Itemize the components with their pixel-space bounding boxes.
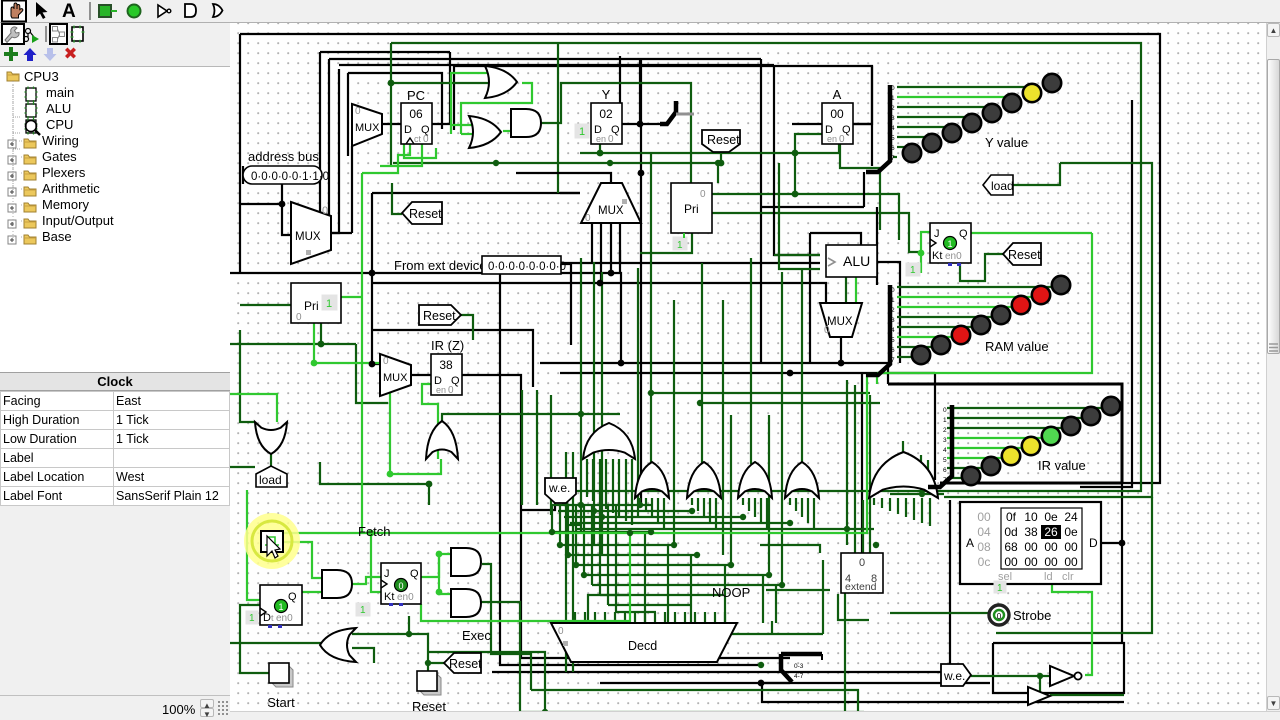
wire	[897, 106, 993, 108]
wire	[807, 498, 809, 523]
svg-text:From ext device: From ext device	[394, 258, 486, 273]
wire	[372, 283, 826, 303]
svg-text:0-3: 0-3	[794, 663, 804, 670]
wire	[610, 223, 612, 273]
splitter S3 IR	[928, 405, 952, 487]
wire	[361, 173, 363, 533]
wire	[421, 554, 451, 577]
not gate G16	[1050, 666, 1074, 686]
wire	[845, 276, 847, 303]
LED RAM0	[912, 346, 930, 364]
wire	[586, 459, 588, 497]
wire	[1101, 542, 1122, 544]
wire	[567, 505, 569, 555]
wire	[239, 34, 241, 204]
wire	[352, 577, 381, 584]
node	[581, 572, 587, 578]
svg-text:MUX: MUX	[827, 316, 853, 328]
wire	[650, 153, 652, 464]
wire	[352, 648, 374, 663]
svg-text:02: 02	[599, 107, 613, 121]
buffer G17	[1028, 687, 1050, 705]
node	[311, 360, 318, 367]
node	[573, 562, 579, 568]
svg-text:Memory: Memory	[42, 197, 89, 212]
wire	[881, 498, 883, 508]
LED IR7	[1102, 397, 1120, 415]
wire	[382, 123, 401, 125]
svg-text:ALU: ALU	[843, 253, 870, 269]
node	[787, 520, 793, 526]
wire	[356, 344, 388, 403]
svg-text:Strobe: Strobe	[1013, 608, 1051, 623]
wire	[711, 213, 921, 252]
wire	[889, 498, 891, 511]
wire	[240, 605, 271, 673]
wire	[921, 232, 930, 273]
wire	[771, 621, 773, 634]
node	[779, 582, 785, 588]
wire	[722, 300, 724, 555]
wire	[897, 86, 1033, 88]
svg-text:0: 0	[355, 106, 361, 117]
wire	[616, 611, 656, 613]
wire	[775, 585, 777, 623]
wire	[599, 459, 601, 505]
wire	[592, 584, 782, 586]
wire	[230, 343, 321, 345]
svg-text:0·0·0·0·0·0·0·0: 0·0·0·0·0·0·0·0	[488, 261, 566, 273]
wire	[625, 459, 627, 521]
svg-text:D: D	[404, 124, 412, 136]
wire	[902, 441, 904, 455]
splitter S2 RAM	[866, 285, 890, 375]
wire	[897, 96, 1013, 98]
wire	[390, 83, 392, 166]
wire	[645, 498, 647, 511]
wire	[536, 390, 538, 505]
wire	[520, 711, 864, 713]
wire	[840, 337, 842, 363]
svg-text:MUX: MUX	[355, 122, 380, 134]
svg-text:Wiring: Wiring	[42, 133, 79, 148]
node	[637, 502, 643, 508]
node	[425, 660, 431, 666]
wire	[947, 457, 1002, 459]
mux M5	[820, 303, 862, 337]
svg-text:w.e.: w.e.	[943, 669, 965, 683]
wire	[1028, 676, 1040, 695]
wire	[867, 373, 877, 375]
node	[565, 552, 571, 558]
wire	[421, 533, 630, 621]
wire	[516, 173, 611, 183]
wire	[591, 505, 593, 585]
LED IR0	[962, 467, 980, 485]
wire	[876, 207, 878, 285]
and gate G12	[322, 570, 352, 598]
wire	[893, 156, 897, 158]
wire	[584, 574, 769, 576]
node	[873, 542, 879, 548]
wire	[618, 459, 620, 517]
svg-text:en0: en0	[945, 251, 962, 262]
RAM M1	[960, 502, 1101, 584]
node	[387, 471, 394, 478]
svg-text:Fetch: Fetch	[358, 524, 391, 539]
svg-text:0·0·0·0·0·1·1·0: 0·0·0·0·0·1·1·0	[251, 171, 329, 183]
wire	[631, 459, 633, 525]
node	[578, 502, 584, 508]
wire	[291, 69, 339, 233]
wire	[944, 163, 1152, 497]
input pin Reset R5	[444, 653, 481, 673]
wire	[766, 589, 830, 591]
svg-text:clr: clr	[1062, 571, 1074, 583]
svg-text:1: 1	[677, 240, 683, 251]
wire	[362, 144, 410, 173]
node	[638, 170, 645, 177]
svg-text:00: 00	[1024, 540, 1038, 554]
wire	[863, 172, 865, 207]
wire	[869, 395, 871, 575]
wire	[439, 554, 451, 594]
svg-text:1: 1	[579, 126, 585, 138]
wire	[615, 505, 617, 612]
input pin Reset R4	[1003, 243, 1041, 265]
node	[608, 270, 615, 277]
node	[697, 400, 703, 406]
wire	[619, 56, 621, 103]
wire	[781, 652, 822, 657]
svg-text:Reset: Reset	[412, 699, 446, 711]
wire	[432, 52, 450, 124]
LED RAM3	[972, 316, 990, 334]
wire	[560, 544, 674, 546]
svg-text:3: 3	[943, 437, 947, 444]
wire	[674, 612, 676, 623]
wire	[822, 560, 824, 634]
wire	[697, 498, 699, 511]
wire	[846, 380, 848, 545]
wire	[451, 73, 490, 134]
splitter S4 leg	[781, 654, 792, 682]
wire	[720, 152, 722, 163]
svg-text:main: main	[46, 85, 74, 100]
selection halo	[244, 513, 300, 569]
node	[758, 662, 764, 668]
flip-flop K2	[381, 563, 421, 604]
wire	[408, 616, 410, 634]
wire	[947, 437, 1042, 439]
priority encoder P2	[291, 283, 341, 323]
wire	[754, 498, 756, 517]
svg-text:D: D	[1089, 536, 1098, 550]
wire	[667, 545, 669, 623]
wire	[583, 505, 585, 575]
wire	[651, 392, 870, 394]
wire	[560, 192, 580, 194]
wire	[779, 163, 820, 269]
or gate G2	[469, 116, 501, 148]
wire	[599, 143, 601, 153]
svg-text:00: 00	[977, 510, 991, 524]
wire	[639, 498, 641, 505]
svg-text:7: 7	[891, 155, 895, 162]
wire	[684, 612, 686, 623]
wire	[934, 373, 936, 480]
svg-text:Y: Y	[602, 87, 611, 102]
wire	[913, 498, 915, 520]
wire	[696, 637, 698, 662]
tunnel load L2	[983, 175, 1013, 195]
wire	[852, 123, 872, 125]
wire	[795, 498, 797, 511]
svg-text:0: 0	[824, 325, 830, 336]
node	[671, 542, 677, 548]
wire	[760, 59, 762, 363]
mux M1 PC	[352, 104, 382, 146]
node	[637, 121, 644, 128]
wire	[794, 153, 796, 194]
subcircuit ALU	[826, 245, 877, 277]
wire	[574, 612, 576, 623]
wire	[877, 233, 1092, 373]
decoder Decd	[551, 623, 737, 662]
svg-text:0: 0	[296, 312, 302, 323]
wire	[561, 263, 571, 265]
svg-text:Kt: Kt	[384, 591, 394, 603]
wire	[701, 263, 703, 464]
wire	[372, 192, 580, 194]
wire	[750, 258, 752, 464]
svg-text:2: 2	[891, 105, 895, 112]
node	[369, 361, 376, 368]
svg-text:Pri: Pri	[684, 202, 699, 216]
svg-text:Decd: Decd	[628, 639, 657, 653]
svg-text:2: 2	[943, 427, 947, 434]
or gate G9	[738, 462, 772, 498]
node	[368, 530, 375, 537]
node	[1119, 540, 1126, 547]
svg-text:04: 04	[977, 525, 991, 539]
node	[607, 160, 613, 166]
wire	[724, 612, 726, 623]
node	[728, 562, 734, 568]
node	[426, 481, 433, 488]
svg-text:0: 0	[943, 407, 947, 414]
wire	[347, 73, 349, 156]
wire	[462, 375, 521, 510]
node	[549, 529, 555, 535]
svg-text:6: 6	[943, 467, 947, 474]
wire	[760, 498, 762, 523]
node	[648, 529, 654, 535]
wire	[540, 362, 888, 364]
wire	[584, 612, 586, 623]
state badge	[944, 237, 957, 250]
wire	[1121, 483, 1123, 643]
wire	[897, 356, 912, 358]
svg-text:RAM value: RAM value	[985, 339, 1049, 354]
wire	[873, 498, 875, 505]
wire	[838, 594, 869, 620]
LED RAM2	[952, 326, 970, 344]
mux M2 address	[291, 202, 331, 264]
svg-text:00: 00	[1044, 540, 1058, 554]
svg-text:J: J	[934, 228, 940, 240]
node	[493, 160, 499, 166]
input pin Reset R3	[702, 130, 740, 152]
LED IR6	[1082, 407, 1100, 425]
svg-text:1: 1	[943, 417, 947, 424]
svg-text:4: 4	[891, 327, 895, 334]
svg-text:Base: Base	[42, 229, 72, 244]
svg-text:en: en	[436, 385, 446, 395]
wire	[580, 152, 839, 154]
wire	[503, 130, 511, 132]
svg-text:1: 1	[910, 265, 916, 276]
svg-text:0d: 0d	[1004, 525, 1017, 539]
wire	[230, 466, 255, 468]
wire	[576, 564, 731, 566]
LED Y2	[943, 124, 961, 142]
wire	[690, 555, 692, 623]
wire	[947, 447, 1022, 449]
input pin w.e. W1	[545, 478, 576, 503]
svg-text:Pri: Pri	[304, 299, 319, 313]
wire	[291, 52, 320, 213]
LED Y0	[903, 144, 921, 162]
svg-text:PC: PC	[407, 88, 425, 103]
mux M4	[581, 183, 641, 223]
wire	[703, 498, 705, 517]
wire	[594, 612, 596, 623]
wire	[372, 330, 533, 387]
bit extender	[841, 553, 883, 593]
wire	[427, 663, 429, 673]
wire	[428, 652, 545, 712]
wire	[242, 166, 244, 184]
wire	[861, 373, 863, 553]
button Start	[272, 666, 293, 687]
svg-text:68: 68	[1004, 540, 1018, 554]
pin marks	[268, 625, 272, 628]
wire	[691, 498, 693, 505]
wire	[302, 591, 322, 593]
svg-text:A: A	[62, 1, 76, 22]
wire	[348, 73, 442, 129]
wire	[341, 296, 362, 298]
node	[740, 514, 746, 520]
wire	[240, 34, 1160, 483]
svg-text:address bus: address bus	[248, 149, 319, 164]
wire	[283, 374, 867, 533]
wire	[604, 612, 606, 623]
svg-text:A: A	[833, 87, 842, 102]
wire	[887, 363, 889, 384]
wire	[897, 346, 932, 348]
wire	[552, 504, 652, 506]
wire	[920, 455, 922, 494]
wire	[282, 184, 291, 235]
wire	[855, 276, 857, 303]
svg-text:00: 00	[1064, 555, 1078, 569]
svg-text:Arithmetic: Arithmetic	[42, 181, 100, 196]
wire	[240, 203, 282, 205]
wire	[897, 286, 1052, 288]
wire	[552, 531, 651, 533]
wire	[766, 498, 768, 529]
node	[838, 360, 845, 367]
svg-text:0: 0	[322, 205, 328, 217]
node	[597, 150, 604, 157]
wire	[862, 500, 864, 565]
node	[758, 680, 765, 687]
wire	[897, 326, 972, 328]
or gate G11	[869, 452, 938, 498]
wire	[709, 498, 711, 523]
svg-text:A: A	[966, 536, 974, 550]
wire	[329, 58, 761, 60]
node	[578, 411, 584, 417]
wire	[921, 480, 923, 494]
wire	[605, 459, 607, 509]
svg-text:1: 1	[360, 605, 366, 616]
svg-text:4: 4	[943, 447, 947, 454]
wire	[760, 545, 820, 553]
svg-text:1: 1	[249, 613, 255, 624]
wire	[247, 490, 260, 600]
svg-text:Input/Output: Input/Output	[42, 213, 114, 228]
flip-flop D1	[260, 585, 302, 625]
wire	[1050, 694, 1124, 696]
wire	[905, 498, 907, 517]
node	[279, 201, 286, 208]
wire	[600, 682, 990, 684]
wire	[599, 505, 601, 595]
node	[599, 514, 605, 520]
wire	[921, 498, 923, 523]
svg-text:IR value: IR value	[1038, 458, 1086, 473]
node	[792, 150, 799, 157]
wire	[838, 143, 840, 153]
wire	[1080, 100, 1132, 487]
wire	[810, 233, 861, 245]
svg-text:MUX: MUX	[295, 231, 321, 243]
LED IR4	[1042, 427, 1060, 445]
wire	[391, 82, 490, 84]
wire	[558, 510, 694, 512]
LED IR5	[1062, 417, 1080, 435]
svg-text:0e: 0e	[1044, 510, 1058, 524]
wire	[781, 272, 783, 585]
node	[766, 572, 772, 578]
register A	[822, 103, 853, 144]
wire	[664, 612, 666, 623]
svg-text:0: 0	[891, 85, 895, 92]
svg-text:6: 6	[891, 145, 895, 152]
wire	[541, 83, 691, 183]
state badge	[275, 600, 288, 613]
wire	[876, 373, 878, 384]
wire	[993, 643, 1124, 693]
input pin w.e. W2	[941, 664, 971, 686]
wire	[960, 254, 1003, 281]
or gate G6	[583, 423, 635, 459]
svg-text:en: en	[596, 134, 606, 144]
wire	[580, 258, 582, 533]
